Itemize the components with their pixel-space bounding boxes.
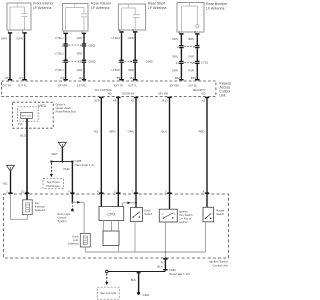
terminal B4 at keyless unit	[130, 76, 137, 81]
svg-text:Control: Control	[58, 216, 67, 220]
wire WHT from B13 to pin 3	[162, 98, 170, 193]
svg-text:Rear Shelf: Rear Shelf	[148, 2, 165, 6]
branch wire to knob lock solenoid with arrow	[72, 201, 84, 234]
wire ignition key switch to pin 8	[165, 222, 167, 258]
wire LT BLU antenna2 pin1 mid segment	[55, 47, 66, 60]
svg-text:B16: B16	[175, 76, 181, 80]
svg-text:BLU: BLU	[162, 130, 167, 134]
terminal B15 at keyless unit	[191, 76, 200, 81]
svg-text:KEY SOL: KEY SOL	[22, 116, 32, 118]
svg-text:EXT TL: EXT TL	[129, 85, 138, 88]
svg-text:LF Antenna: LF Antenna	[148, 6, 166, 10]
wire BLK from pin 8 to C486	[157, 258, 167, 271]
connector pins 2 and 1 inline	[177, 45, 199, 49]
svg-text:Solenoid: Solenoid	[68, 242, 79, 246]
terminal pin 10	[21, 189, 29, 193]
wire knob switch to internal bus	[134, 221, 136, 252]
wire LT BLU antenna2 pin1 upper segment	[55, 34, 66, 44]
connector label C485 (Terminals 1-4)	[75, 159, 94, 167]
svg-text:EXT RR: EXT RR	[58, 85, 67, 88]
wire ORN antenna4 pin1 mid segment	[172, 48, 181, 61]
svg-text:KEY SW: KEY SW	[158, 93, 168, 96]
terminal B2 at keyless unit	[79, 76, 86, 81]
svg-text:B2: B2	[79, 76, 83, 80]
wire PUR antenna4 pin2 lower segment	[189, 64, 198, 79]
wire BRN antenna4 pin2 upper segment	[189, 34, 198, 45]
pin 1 of rear interior antenna	[63, 29, 68, 34]
svg-text:14: 14	[129, 60, 133, 64]
wire GRN antenna2 pin2 upper segment	[77, 34, 85, 44]
svg-text:Rotate: Rotate	[216, 209, 224, 213]
connector label C486 (Terminals 7-12)	[169, 268, 190, 276]
svg-text:GRN: GRN	[77, 36, 83, 40]
svg-text:10: 10	[21, 189, 25, 193]
svg-text:LT BLU: LT BLU	[55, 52, 64, 56]
wires CPU bottom to driver block	[104, 221, 119, 253]
svg-text:C605: C605	[146, 60, 154, 64]
svg-text:GRN: GRN	[77, 68, 83, 72]
svg-text:LF Antenna: LF Antenna	[33, 6, 51, 10]
terminal A8	[113, 97, 121, 103]
pin 1 of rear shelf antenna	[119, 28, 124, 33]
power feed symbol center (fuse feed)	[58, 142, 66, 148]
svg-text:ORN: ORN	[172, 68, 178, 72]
svg-text:Rear Bumper: Rear Bumper	[206, 2, 228, 6]
terminal B13	[162, 97, 171, 103]
svg-text:G501: G501	[143, 293, 150, 297]
svg-text:P19: P19	[18, 122, 23, 126]
svg-text:YEL: YEL	[3, 182, 9, 186]
svg-text:EXT BR: EXT BR	[170, 85, 179, 88]
svg-text:Ignition: Ignition	[179, 209, 188, 213]
svg-text:EXT FL: EXT FL	[19, 85, 28, 88]
terminal A3	[202, 97, 210, 103]
svg-text:Knob: Knob	[72, 235, 79, 239]
svg-text:See Power: See Power	[47, 180, 60, 184]
svg-text:EXT BL: EXT BL	[189, 85, 198, 88]
svg-text:Entry Light: Entry Light	[58, 212, 71, 216]
svg-text:Front Interior: Front Interior	[33, 2, 54, 6]
svg-text:NO.: NO.	[108, 93, 113, 96]
svg-text:Unit: Unit	[220, 94, 226, 98]
wire knob lock solenoid to bus	[84, 247, 86, 252]
wire pin3 into CPU	[117, 193, 119, 207]
svg-text:LF Antenna: LF Antenna	[206, 7, 224, 11]
pin 1 of front interior antenna	[7, 29, 12, 34]
wire YEL from A28 to pin 4	[93, 98, 101, 193]
antenna unit: Rear Interior LF Antenna	[63, 2, 112, 31]
svg-text:MICU: MICU	[38, 104, 47, 108]
pin name SECURITY IND	[193, 89, 206, 95]
wire ORN antenna4 pin1 upper segment	[172, 34, 181, 45]
svg-text:BRN: BRN	[189, 37, 195, 41]
reference box See Power Distribution	[43, 179, 64, 189]
wire A3 into rotate switch	[206, 193, 208, 207]
wire WHT from power feed to node	[52, 148, 63, 161]
svg-text:PUR: PUR	[64, 167, 70, 171]
knob switch	[131, 208, 153, 222]
ignition switch control unit box	[3, 194, 228, 267]
svg-text:Solenoid: Solenoid	[35, 208, 46, 212]
svg-text:B4: B4	[130, 76, 134, 80]
svg-text:LT BLU: LT BLU	[112, 68, 121, 72]
connector C605 pins 1 and 14	[117, 60, 153, 64]
svg-text:C4: C4	[19, 76, 23, 80]
svg-text:ORN: ORN	[172, 37, 178, 41]
pin 2 of front interior antenna	[22, 29, 27, 34]
pin name IGN CONTROL NO	[95, 89, 113, 95]
svg-text:WHT: WHT	[52, 152, 59, 156]
ring terminal	[106, 270, 109, 273]
svg-text:Ignition: Ignition	[179, 220, 188, 224]
terminal pin 1	[6, 189, 13, 193]
svg-text:EXT RL: EXT RL	[77, 85, 86, 88]
svg-text:BRN: BRN	[110, 130, 116, 134]
svg-text:Lock: Lock	[73, 238, 79, 242]
node bar C485 junction	[50, 161, 73, 163]
pin 2 of rear interior antenna	[81, 29, 86, 34]
antenna unit: Rear Bumper LF Antenna	[177, 2, 228, 32]
keyless access control unit box	[2, 81, 232, 98]
wire GRN from antenna pin1 to C5	[1, 33, 10, 79]
wire LT BLU antenna3 pin1 lower segment	[112, 63, 122, 80]
terminal C5 at keyless unit	[5, 76, 13, 81]
svg-text:LF Antenna: LF Antenna	[91, 6, 109, 10]
svg-text:Switch: Switch	[216, 212, 224, 216]
key interlock solenoid driver block P19	[18, 112, 33, 125]
svg-text:Distribution: Distribution	[46, 184, 60, 188]
pin 1 of rear bumper antenna	[179, 30, 184, 35]
wire pin7 into knob switch	[135, 193, 137, 208]
svg-text:GRN: GRN	[1, 36, 7, 40]
reference stub to entry light control system	[58, 202, 74, 223]
wire BLU from MICU to pin 10	[21, 118, 28, 193]
svg-text:RED: RED	[199, 130, 205, 134]
terminal pin 3	[114, 189, 121, 193]
svg-text:C602: C602	[89, 60, 97, 64]
svg-text:Rear Interior: Rear Interior	[91, 2, 112, 6]
ground bus wire	[107, 271, 166, 273]
antenna unit: Rear Shelf LF Antenna	[118, 2, 166, 30]
svg-text:Interlock: Interlock	[35, 205, 46, 209]
terminal C4 at keyless unit	[19, 76, 27, 81]
svg-text:Control Unit: Control Unit	[212, 263, 227, 267]
branch from CPU to pin7 wire with arrow	[123, 201, 137, 206]
terminal A28	[94, 97, 103, 103]
terminal B16 at keyless unit	[175, 76, 184, 81]
terminal A4	[131, 97, 139, 103]
svg-text:LT BLU: LT BLU	[55, 68, 64, 72]
svg-text:EXT TR: EXT TR	[114, 85, 123, 88]
internal ground bus	[85, 251, 205, 253]
connector C601 pins 2 and 4	[61, 43, 96, 47]
ground point G501	[137, 292, 150, 297]
wire GRN antenna2 pin2 lower segment	[77, 63, 85, 80]
svg-text:Knob: Knob	[144, 208, 151, 212]
terminal pin 3b	[165, 189, 172, 193]
wire LT BLU antenna3 pin1 upper segment	[112, 32, 122, 60]
terminal pin 8 top	[203, 189, 210, 193]
knob lock solenoid	[68, 233, 90, 247]
svg-text:C5: C5	[5, 76, 9, 80]
svg-text:B3: B3	[117, 76, 121, 80]
svg-text:DOOR SW: DOOR SW	[122, 93, 135, 96]
terminal pin 8 bottom	[161, 258, 168, 264]
wire LT BLU antenna2 pin1 lower segment	[55, 63, 66, 80]
svg-text:12: 12	[78, 60, 82, 64]
rotate switch	[203, 207, 225, 222]
wire BLK to ground G501	[131, 272, 141, 293]
wire ORN antenna4 pin1 lower segment	[172, 64, 181, 79]
svg-text:Key: Key	[35, 201, 40, 205]
svg-text:BLU: BLU	[21, 134, 26, 138]
svg-text:GRN: GRN	[128, 36, 134, 40]
antenna unit: Front Interior LF Antenna	[7, 2, 54, 30]
terminal pin 7	[132, 189, 139, 193]
svg-text:LT BLU: LT BLU	[112, 36, 121, 40]
svg-text:B13: B13	[162, 99, 168, 103]
driver block below CPU	[103, 231, 119, 246]
wire B13 into ignition key switch	[169, 193, 171, 209]
junction of pin 9 wire	[72, 193, 74, 203]
svg-text:CPU: CPU	[107, 212, 115, 216]
svg-text:YEL: YEL	[93, 130, 99, 134]
dashed arrow to see grounds	[105, 274, 108, 286]
connector C701 pins 14 and 13	[175, 61, 208, 65]
svg-text:See Grounds: See Grounds	[100, 291, 116, 295]
svg-text:D9: D9	[61, 76, 65, 80]
svg-text:A28: A28	[94, 99, 100, 103]
terminal pin 9	[68, 189, 75, 193]
svg-text:14: 14	[175, 61, 179, 65]
wire GRN from A4 to pin 7	[128, 98, 136, 193]
wire rotate switch to bus	[204, 222, 206, 252]
svg-text:1 = Key in: 1 = Key in	[179, 216, 192, 220]
svg-text:GRN: GRN	[128, 68, 134, 72]
svg-text:A3: A3	[202, 99, 206, 103]
svg-text:A8: A8	[113, 99, 117, 103]
svg-text:EXT FR: EXT FR	[3, 85, 12, 88]
wire pin4 into CPU	[100, 193, 102, 207]
svg-text:LT BLU: LT BLU	[55, 36, 64, 40]
reference box See Grounds	[97, 287, 119, 299]
svg-text:IND: IND	[201, 93, 206, 96]
svg-text:System: System	[58, 219, 68, 223]
wire GRN antenna3 pin2 lower segment	[128, 63, 135, 80]
terminal pin 4	[97, 189, 104, 193]
svg-text:BLK: BLK	[157, 264, 162, 268]
ignition key switch	[159, 209, 193, 224]
power feed symbol left (fuse feed)	[7, 165, 15, 171]
wire RED from A3 to pin 8	[199, 98, 207, 193]
pin 2 of rear bumper antenna	[194, 30, 199, 35]
terminal B3 at keyless unit	[117, 76, 124, 81]
svg-text:ORN: ORN	[172, 54, 178, 58]
svg-text:Switch: Switch	[144, 212, 152, 216]
svg-text:Key Switch: Key Switch	[179, 213, 193, 217]
wire GRN antenna2 pin2 mid segment	[77, 47, 85, 60]
svg-text:PUR: PUR	[189, 68, 195, 72]
svg-text:GRN: GRN	[77, 52, 83, 56]
wire BRN from A8 to pin 3	[110, 98, 119, 193]
svg-text:(Terminals 1-4): (Terminals 1-4)	[75, 163, 94, 167]
dashed reference arrow to power distribution	[50, 163, 53, 177]
svg-text:GRN: GRN	[17, 36, 23, 40]
MICU box in driver's under-dash fuse/relay box	[13, 102, 77, 128]
svg-text:B15: B15	[191, 76, 197, 80]
wire PUR antenna4 pin2 mid segment	[189, 48, 198, 61]
key interlock solenoid	[23, 193, 46, 215]
svg-text:C701: C701	[201, 61, 209, 65]
CPU block	[99, 207, 124, 221]
connector C602 pins 2 and 12	[61, 60, 96, 64]
wire from pin1 to solenoid bottom	[11, 194, 28, 219]
svg-text:C601: C601	[89, 43, 97, 47]
svg-text:Fuse/Relay Box: Fuse/Relay Box	[56, 109, 77, 113]
svg-text:PUR: PUR	[189, 54, 195, 58]
wire GRN antenna3 pin2 upper segment	[128, 32, 135, 60]
terminal D9 at keyless unit	[61, 76, 68, 81]
svg-text:13: 13	[191, 61, 195, 65]
wire PUR from node to pin 9	[64, 162, 73, 193]
wire GRN from antenna pin2 to C4	[17, 33, 25, 79]
svg-text:A4: A4	[131, 99, 135, 103]
wire YEL from power feed to pin 1	[3, 171, 11, 193]
svg-text:GRN: GRN	[128, 130, 134, 134]
pin 2 of rear shelf antenna	[132, 28, 137, 33]
svg-text:(Terminals 7-12): (Terminals 7-12)	[169, 272, 190, 276]
svg-text:BLK: BLK	[131, 278, 136, 282]
